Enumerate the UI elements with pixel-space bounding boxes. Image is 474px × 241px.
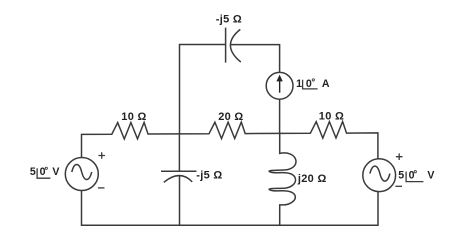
resistor R1 10ohm zigzag / resistor R2 20ohm zigzag / resistor R3 10ohm zigzag	[82, 122, 378, 159]
plus sign (left source)	[98, 152, 105, 159]
svg-text:0: 0	[40, 166, 46, 178]
svg-text:5: 5	[398, 169, 404, 181]
capacitor C top -j5: curved plate	[230, 29, 240, 62]
svg-text:V: V	[52, 166, 59, 178]
svg-text:0: 0	[409, 169, 415, 181]
minus sign (right source)	[395, 185, 402, 187]
wire: left vertical bottom + bottom wire + right vertical bottom	[82, 191, 379, 226]
label 1&ang;0&deg; A (current source)	[296, 78, 330, 90]
wire: capacitor branch upper segment	[178, 134, 180, 171]
voltage source V2 sine	[370, 166, 390, 181]
svg-text:-j5 Ω: -j5 Ω	[196, 170, 222, 182]
svg-text:j20 Ω: j20 Ω	[297, 173, 327, 185]
svg-text:A: A	[322, 78, 330, 90]
current source U1 circle	[266, 72, 293, 99]
wire: capacitor branch lower segment	[179, 176, 181, 225]
label 5&ang;0&deg; V (right source)	[398, 169, 434, 181]
current source arrow	[276, 75, 282, 93]
svg-text:1: 1	[296, 78, 302, 90]
wire: current source bottom to middle wire	[279, 99, 281, 134]
capacitor C2 -j5: flat plate	[161, 170, 197, 172]
svg-text:5: 5	[30, 166, 36, 178]
voltage source V1 circle (left)	[65, 158, 98, 191]
voltage source V1 sine	[72, 165, 92, 180]
svg-text:V: V	[427, 169, 434, 181]
wire: top loop left vertical + top horizontal to capacitor	[180, 45, 226, 135]
voltage source V2 circle (right)	[363, 159, 396, 192]
plus sign (right source)	[396, 153, 403, 160]
svg-text:10 Ω: 10 Ω	[121, 111, 146, 123]
svg-text:20 Ω: 20 Ω	[218, 111, 243, 123]
svg-text:0: 0	[306, 78, 312, 90]
capacitor C top -j5: flat plate	[225, 28, 227, 63]
svg-text:10 Ω: 10 Ω	[319, 111, 344, 123]
inductor L1 j20 coil	[269, 134, 296, 225]
svg-text:-j5 Ω: -j5 Ω	[216, 13, 242, 25]
minus sign (left source)	[98, 187, 105, 189]
capacitor C2 -j5: curved plate	[164, 176, 192, 183]
wire: top horizontal from capacitor arc to top-right corner, down to current source	[231, 45, 280, 73]
label 5&ang;0&deg; V (left source)	[30, 166, 60, 178]
